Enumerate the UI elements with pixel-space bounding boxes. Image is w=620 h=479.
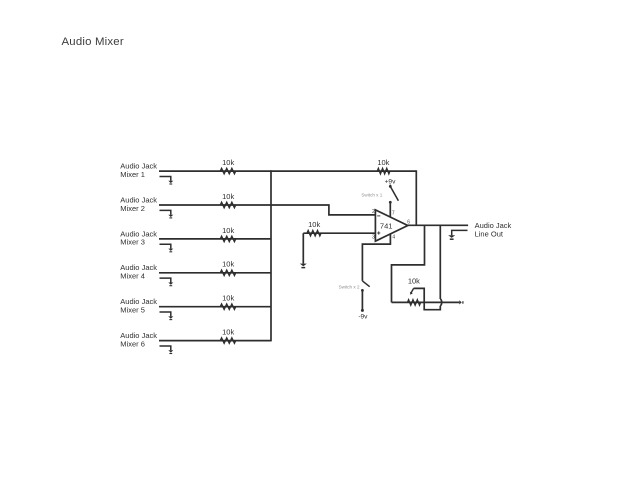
svg-text:10k: 10k [377,158,389,167]
svg-text:10k: 10k [222,328,234,337]
svg-text:4: 4 [392,235,395,241]
svg-text:10k: 10k [408,276,420,285]
svg-text:3: 3 [372,234,375,240]
svg-text:10k: 10k [222,260,234,269]
svg-text:Mixer 6: Mixer 6 [120,339,145,348]
svg-text:Line Out: Line Out [475,229,504,238]
svg-text:Mixer 1: Mixer 1 [120,170,145,179]
svg-text:Mixer 2: Mixer 2 [120,204,145,213]
svg-text:Switch x 2: Switch x 2 [339,285,360,290]
svg-text:-9v: -9v [358,313,368,320]
svg-text:10k: 10k [222,192,234,201]
svg-text:Audio Mixer: Audio Mixer [62,36,124,48]
svg-text:Switch x 1: Switch x 1 [361,193,382,198]
svg-text:Mixer 4: Mixer 4 [120,272,145,281]
svg-text:10k: 10k [222,158,234,167]
svg-text:2: 2 [372,209,375,215]
svg-text:10k: 10k [308,220,320,229]
svg-text:7: 7 [392,211,395,217]
svg-text:Mixer 3: Mixer 3 [120,238,145,247]
svg-text:Mixer 5: Mixer 5 [120,306,145,315]
svg-text:741: 741 [380,221,393,230]
svg-text:10k: 10k [222,226,234,235]
svg-text:+9v: +9v [385,179,397,186]
svg-text:10k: 10k [222,294,234,303]
